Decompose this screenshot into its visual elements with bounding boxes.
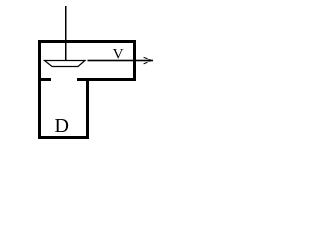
arrowhead	[144, 57, 148, 64]
chamber bottom-right wall with slit	[77, 78, 136, 81]
collecting pan (trapezoid dish)	[45, 61, 86, 67]
chamber top wall	[38, 40, 136, 43]
svg-text:V: V	[113, 45, 124, 62]
oven D bottom wall	[38, 136, 89, 139]
support wire	[65, 6, 67, 61]
chamber bottom-left lip	[38, 78, 51, 81]
oven D right wall	[86, 78, 89, 139]
velocity line	[88, 60, 154, 62]
chamber left wall	[38, 40, 41, 139]
svg-text:D: D	[55, 115, 69, 137]
chamber right wall	[133, 40, 136, 81]
node dot on arrow	[148, 59, 150, 61]
